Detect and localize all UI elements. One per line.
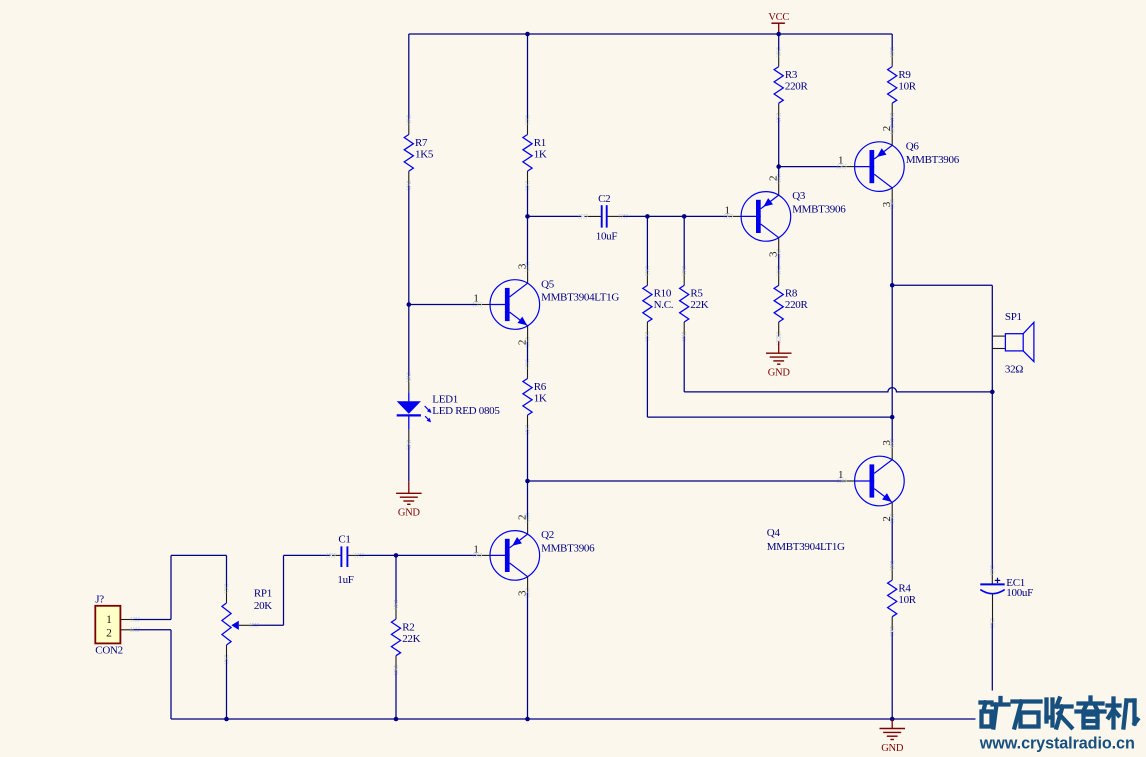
svg-text:3: 3 [881,440,893,446]
wire R7 to node [408,186,410,305]
wiper RP1 [231,621,252,630]
junction R5 top [682,214,687,219]
resistor R3 220R [774,52,783,118]
wire R10 to Q4 net [646,337,648,418]
speaker SP1 32ohm [992,322,1034,361]
svg-text:1: 1 [106,614,112,626]
wire top rail to R1 [527,34,529,120]
junction R7 / LED / Q5 base [407,302,412,307]
junction R4 / GND [890,717,895,722]
svg-text:MMBT3906: MMBT3906 [906,154,960,166]
svg-text:220R: 220R [785,80,809,92]
svg-text:LED1: LED1 [432,393,458,405]
svg-text:1: 1 [473,543,478,555]
svg-text:1K5: 1K5 [415,148,434,160]
svg-text:RP1: RP1 [254,588,272,600]
wire R10 to Q4 collector [647,416,892,418]
wire to speaker column [892,284,992,286]
transistor Q5 MMBT3904LT1G (NPN) [477,267,539,342]
junction R1 / C2 / Q5 [525,214,530,219]
svg-text:R1: R1 [534,137,546,149]
resistor R2 22K [391,605,400,671]
svg-text:CON2: CON2 [95,645,123,657]
svg-text:2: 2 [881,516,893,521]
LED LED1 [397,377,432,445]
wire R9 to Q6 collector [891,118,893,129]
svg-text:220R: 220R [785,299,809,311]
wire LED1 cathode to ground [408,445,410,482]
svg-text:R6: R6 [534,381,547,393]
ground GND (LED1) [396,481,422,504]
svg-text:GND: GND [881,743,904,754]
resistor R4 10R [888,566,897,632]
wire down to Q4 collector junction [891,285,893,417]
wire R6 to Q2 node [527,430,529,481]
wire top rail to R7 [408,34,410,120]
wire RP1 top wire [226,555,228,588]
svg-text:2: 2 [881,126,893,131]
junction Q4 collector junction [890,415,895,420]
svg-text:R7: R7 [415,137,428,149]
svg-text:MMBT3906: MMBT3906 [541,543,595,555]
wire speaker column upper [991,285,993,392]
junction R10 top [645,214,650,219]
resistor R10 N.C. [643,271,652,337]
wire R4 to ground rail [891,632,893,719]
svg-text:R2: R2 [402,621,414,633]
svg-text:1: 1 [724,204,729,216]
junction Q6 emitter / speaker [890,283,895,288]
wire Q3 emitter to R8 [778,254,780,271]
transistor Q6 MMBT3906 (PNP) [842,129,904,204]
junction C1 / R2 / Q2 base [394,553,399,558]
wire node to Q6 base [779,166,842,168]
wire R5 down [683,337,685,392]
svg-text:www.crystalradio.cn: www.crystalradio.cn [979,735,1135,753]
svg-text:Q5: Q5 [541,278,555,290]
wire VCC rail to R9 [891,34,893,52]
svg-text:Q2: Q2 [541,529,554,541]
svg-text:1: 1 [838,469,843,481]
svg-text:2: 2 [517,515,529,520]
wire R5 to speaker net (with hop) [684,388,992,392]
wire C1 to R2 node [358,554,396,556]
junction Q2 emitter [525,717,530,722]
svg-text:3: 3 [517,263,529,269]
svg-text:1K: 1K [534,392,547,404]
wire ground rail [171,718,992,720]
capacitor EC1 100uF electrolytic [980,570,1004,623]
ground GND (R8) [766,341,792,364]
ground GND (rail) [880,719,906,740]
transistor Q3 MMBT3906 (PNP) [728,179,790,254]
wire RP1 bottom to ground rail [226,660,228,720]
wire to R10 [646,216,648,271]
svg-text:SP1: SP1 [1005,311,1022,323]
wire Q4 emitter to R4 [891,519,893,566]
wire node to Q3 collector [778,167,780,180]
svg-text:10R: 10R [898,80,916,92]
junction R6 / Q2 collector / Q4 base [525,479,530,484]
svg-text:1K: 1K [534,148,547,160]
svg-text:3: 3 [881,201,893,207]
junction R1 top / VCC rail [525,32,530,37]
svg-text:LED RED 0805: LED RED 0805 [432,405,500,417]
wire Q2 collector up to node [527,481,529,518]
wire J pin2 right [134,629,171,631]
svg-text:R9: R9 [898,69,911,81]
wire C2 node to C2 [528,215,582,217]
wire EC1 to ground rail [991,623,993,719]
wire C2 to R10 node [623,215,648,217]
wire speaker net to EC1 [991,392,993,570]
transistor Q2 MMBT3906 (PNP) [477,518,539,593]
wire to RP1 top [171,554,227,556]
svg-text:3: 3 [517,590,529,596]
svg-text:10R: 10R [898,594,916,606]
wire node to R2 [395,555,397,604]
wire Q6 emitter down [891,204,893,285]
wire wiper right [253,624,284,626]
resistor RP1 [222,589,231,660]
svg-text:22K: 22K [690,299,708,311]
transistor Q4 MMBT3904LT1G (NPN) [842,444,904,519]
wire R10 node to R5 node [647,215,684,217]
wire node to Q5 base [409,304,478,306]
svg-text:2: 2 [768,176,780,181]
connector J? CON2 [95,606,133,644]
wire Q5 emitter to R6 [527,342,529,364]
svg-text:J?: J? [95,594,104,606]
svg-text:VCC: VCC [768,12,789,23]
svg-text:R5: R5 [690,288,703,300]
junction VCC / R3 top [776,32,781,37]
svg-text:GND: GND [768,368,791,379]
svg-text:N.C.: N.C. [654,299,674,311]
wire wiper up [283,555,285,625]
wire wiper to C1 [284,554,331,556]
wire to R5 [683,216,685,271]
wire Q2 collector to Q4 base [528,480,842,482]
svg-text:Q4: Q4 [767,527,781,539]
watermark logo text (crystalradio) [981,698,1138,728]
wire J pin2 down to ground rail [170,630,172,719]
watermark background [976,691,1146,757]
wire node to Q5 collector [527,216,529,267]
capacitor C2 10uF [585,205,623,227]
resistor R7 1K5 [404,120,413,186]
svg-text:100uF: 100uF [1006,587,1033,599]
svg-text:10uF: 10uF [596,231,618,243]
wire R3 to Q3 node [778,118,780,167]
junction RP1 bottom [224,717,229,722]
svg-text:C2: C2 [598,193,610,205]
svg-text:MMBT3906: MMBT3906 [792,204,846,216]
wire R5 node to Q3 base [684,215,728,217]
wire VCC rail [409,33,892,35]
svg-text:2: 2 [517,340,529,345]
wire junction to Q4 collector [891,417,893,443]
power VCC [771,23,785,34]
svg-text:32Ω: 32Ω [1005,363,1023,375]
svg-text:R10: R10 [654,288,672,300]
wire node to Q2 base [396,554,477,556]
svg-text:2: 2 [106,628,112,640]
svg-text:1: 1 [473,293,478,305]
wire Q2 emitter to ground rail [527,593,529,719]
svg-text:3: 3 [768,251,780,257]
resistor R1 1K [523,120,532,186]
svg-text:22K: 22K [402,633,420,645]
junction speaker net junction [990,390,995,395]
svg-text:R8: R8 [785,288,798,300]
resistor R6 1K [523,364,532,430]
svg-text:C1: C1 [338,534,350,546]
wire J pin1 up [170,555,172,619]
svg-text:20K: 20K [254,600,272,612]
resistor R9 10R [888,52,897,118]
resistor R5 22K [680,271,689,337]
wire J pin1 right [134,619,171,621]
svg-text:1uF: 1uF [337,574,353,586]
svg-text:GND: GND [398,508,421,519]
svg-text:MMBT3904LT1G: MMBT3904LT1G [767,541,845,553]
wire R2 to ground rail [395,670,397,719]
svg-text:R3: R3 [785,69,798,81]
junction R2 bottom [394,717,399,722]
wire VCC to R3 [778,34,780,52]
wire node to LED1 anode [408,305,410,378]
capacitor C1 1uF [332,546,358,567]
svg-text:Q3: Q3 [792,190,806,202]
resistor R8 220R [774,271,783,337]
svg-text:1: 1 [838,155,843,167]
svg-text:R4: R4 [898,582,911,594]
junction R3 / Q3 collector / Q6 base [776,164,781,169]
svg-text:Q6: Q6 [906,140,920,152]
wire R1 to C2 node [527,186,529,217]
svg-text:MMBT3904LT1G: MMBT3904LT1G [541,292,619,304]
